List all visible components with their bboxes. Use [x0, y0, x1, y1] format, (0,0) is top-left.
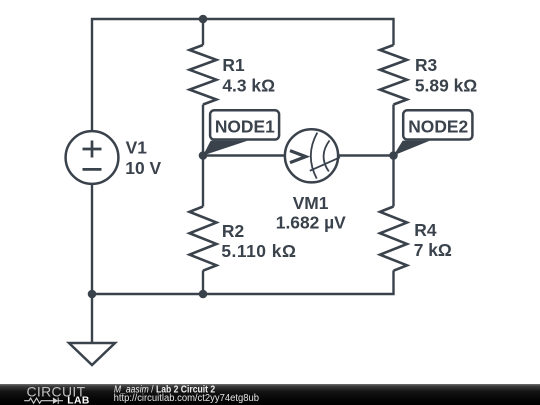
wire R3 bottom lead to node B	[392, 105, 394, 156]
voltmeter VM1	[285, 129, 338, 182]
svg-text:10 V: 10 V	[125, 158, 161, 178]
junction top rail / R1	[199, 15, 208, 24]
wire ground stem	[91, 294, 93, 343]
footer bar	[0, 384, 540, 405]
wire top rail: V1 top to R3 top	[92, 19, 394, 131]
voltage source V1	[66, 131, 119, 184]
resistor R1	[190, 45, 217, 105]
svg-text:1.682 µV: 1.682 µV	[276, 213, 346, 233]
resistor R2	[190, 207, 217, 271]
junction node NODE2	[389, 151, 398, 160]
resistor R4	[380, 207, 407, 271]
svg-text:LAB: LAB	[67, 395, 90, 405]
wire R2 bottom lead	[202, 271, 204, 295]
junction bottom rail / ground	[88, 290, 97, 299]
wire node A to voltmeter left	[203, 154, 285, 156]
svg-text:5.89 kΩ: 5.89 kΩ	[415, 76, 477, 96]
svg-text:7 kΩ: 7 kΩ	[414, 240, 452, 260]
resistor R3	[380, 45, 407, 105]
svg-text:NODE1: NODE1	[215, 116, 275, 136]
svg-text:R2: R2	[222, 221, 244, 241]
svg-text:R3: R3	[415, 55, 438, 75]
svg-text:R4: R4	[414, 220, 437, 240]
junction node NODE1	[199, 151, 208, 160]
node NODE2 flag	[394, 110, 473, 155]
wire node A to R2	[202, 156, 204, 207]
svg-text:R1: R1	[222, 55, 245, 75]
wire bottom rail: R4 bottom to ground column	[92, 271, 394, 295]
svg-text:5.110 kΩ: 5.110 kΩ	[221, 241, 296, 261]
svg-text:VM1: VM1	[293, 193, 329, 213]
node NODE1 flag	[203, 110, 279, 155]
ground	[69, 343, 115, 365]
wire node B to R4	[392, 156, 394, 207]
svg-text:NODE2: NODE2	[408, 116, 468, 136]
svg-text:V1: V1	[126, 137, 148, 157]
svg-text:http://circuitlab.com/ct2yy74e: http://circuitlab.com/ct2yy74etg8ub	[114, 393, 260, 404]
wire V1 bottom to bottom rail	[91, 184, 93, 294]
wire R1 bottom lead to node A	[202, 105, 204, 156]
wire R1 top lead	[202, 19, 204, 45]
footer logo resistor-diode glyph	[24, 398, 63, 404]
junction bottom rail / R2	[199, 290, 208, 299]
svg-text:4.3 kΩ: 4.3 kΩ	[222, 76, 275, 96]
wire voltmeter right to node B	[338, 154, 394, 156]
